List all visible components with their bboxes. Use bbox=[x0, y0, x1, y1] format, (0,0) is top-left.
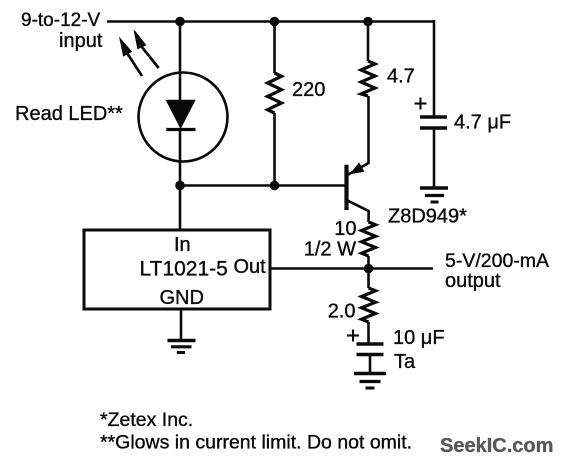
wire mid rail bbox=[180, 184, 347, 187]
svg-text:2.0: 2.0 bbox=[328, 301, 356, 323]
wire capacitor branch down bbox=[433, 20, 436, 116]
resistor 2.0 bbox=[367, 269, 370, 289]
LED D1 cathode bar bbox=[166, 128, 195, 131]
transistor Q1 Z8D949 base bar bbox=[344, 165, 348, 210]
svg-text:output: output bbox=[445, 270, 501, 292]
capacitor C1 plus sign bbox=[415, 98, 427, 110]
svg-text:4.7: 4.7 bbox=[387, 66, 415, 88]
wire cap2 to ground bbox=[369, 356, 372, 374]
capacitor C2 10uF bottom plate bbox=[357, 353, 384, 356]
LED D1 Read LED circle bbox=[139, 73, 228, 162]
node mid rail / 220 bbox=[270, 181, 280, 191]
transistor Q1 collector lead bbox=[347, 200, 369, 211]
svg-text:*Zetex Inc.: *Zetex Inc. bbox=[100, 409, 193, 431]
svg-text:220: 220 bbox=[292, 79, 325, 101]
ground under 4.7uF bbox=[420, 188, 448, 202]
svg-text:9-to-12-V: 9-to-12-V bbox=[21, 10, 101, 31]
svg-text:LT1021-5: LT1021-5 bbox=[140, 258, 228, 281]
svg-text:5-V/200-mA: 5-V/200-mA bbox=[445, 250, 549, 272]
wire LED branch top bbox=[179, 22, 182, 101]
capacitor C2 10uF top plate bbox=[357, 342, 384, 345]
svg-text:10 μF: 10 μF bbox=[393, 327, 445, 349]
wire output rail bbox=[270, 267, 433, 270]
wire cap to ground bbox=[433, 128, 436, 188]
wire collector down bbox=[367, 211, 370, 223]
LED emission arrow 2 bbox=[134, 30, 159, 68]
transistor Q1 emitter lead bbox=[347, 163, 369, 176]
wire In branch bbox=[179, 186, 182, 231]
svg-text:input: input bbox=[59, 30, 103, 52]
capacitor C1 4.7uF bottom plate bbox=[420, 126, 447, 129]
node top rail / LED bbox=[175, 17, 185, 27]
node mid rail / LED bbox=[175, 181, 185, 191]
resistor 4.7 zigzag bbox=[361, 61, 375, 96]
svg-text:4.7 μF: 4.7 μF bbox=[454, 112, 511, 134]
svg-text:Ta: Ta bbox=[394, 351, 416, 373]
svg-text:In: In bbox=[174, 234, 191, 256]
svg-text:**Glows in current limit. Do n: **Glows in current limit. Do not omit. bbox=[100, 432, 412, 454]
wire 10 bottom bbox=[367, 256, 370, 269]
svg-text:Z8D949*: Z8D949* bbox=[388, 206, 467, 228]
resistor 10 1/2W zigzag bbox=[362, 222, 376, 256]
LED D1 anode triangle bbox=[166, 100, 195, 128]
svg-text:1/2 W: 1/2 W bbox=[304, 239, 356, 261]
wire 4.7 branch top bbox=[367, 22, 370, 62]
regulator U1 LT1021-5 box bbox=[84, 230, 270, 309]
svg-text:Out: Out bbox=[234, 256, 267, 278]
node top rail / 220 bbox=[270, 17, 280, 27]
wire 220 bottom bbox=[273, 113, 276, 186]
svg-text:SeekIC.com: SeekIC.com bbox=[440, 435, 553, 457]
ground under LT1021 bbox=[168, 341, 196, 353]
svg-text:10: 10 bbox=[334, 218, 356, 240]
node output junction bbox=[364, 264, 374, 274]
wire 4.7 bottom to transistor bbox=[367, 96, 370, 164]
svg-text:Read LED**: Read LED** bbox=[15, 103, 123, 125]
ground under 10uF bbox=[354, 374, 386, 389]
capacitor C2 10uF plus sign bbox=[347, 330, 359, 342]
wire GND branch bbox=[180, 309, 183, 340]
transistor Q1 emitter arrowhead bbox=[351, 164, 363, 173]
resistor 220 zigzag bbox=[268, 73, 282, 113]
LED emission arrow 1 bbox=[120, 38, 142, 76]
node top rail / 4.7 bbox=[363, 17, 373, 27]
svg-text:GND: GND bbox=[160, 287, 204, 309]
wire LED to mid rail bbox=[179, 130, 182, 187]
wire top rail bbox=[107, 20, 434, 23]
capacitor C1 4.7uF top plate bbox=[420, 115, 447, 118]
wire 2.0 bottom bbox=[367, 322, 370, 344]
wire 220 branch top bbox=[273, 22, 276, 74]
